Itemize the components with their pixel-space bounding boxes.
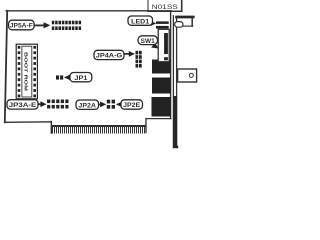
connector body 3 (black) <box>152 97 171 117</box>
bracket: screw slot <box>175 22 183 28</box>
jumper block JP2 (2x2 header) <box>107 100 115 109</box>
IC pins left column <box>18 46 21 97</box>
card outline: step down to edge connector <box>50 122 52 134</box>
label JP5A-F <box>9 20 51 30</box>
svg-text:JP4A-G: JP4A-G <box>96 54 123 60</box>
DB connector screw hole <box>189 73 193 77</box>
switch SW1 actuator bar <box>164 33 168 54</box>
label JP2A <box>76 100 106 109</box>
jumper block JP3A-E (5x2 header) <box>47 100 68 109</box>
edge connector gold fingers comb <box>52 125 145 134</box>
label LED1 <box>128 16 156 26</box>
label SW1 <box>138 36 159 49</box>
svg-text:SW1: SW1 <box>141 39 156 45</box>
switch SW1 lower mark <box>164 57 168 60</box>
DB connector through bracket <box>178 69 197 82</box>
switch SW1 body <box>158 29 169 61</box>
bracket: top tab <box>177 16 194 19</box>
card outline: left edge <box>5 11 7 123</box>
IC inner label area <box>22 46 32 97</box>
svg-text:JP2E: JP2E <box>123 103 140 109</box>
jumper block JP5A-F (9x2 header) <box>52 21 81 30</box>
part number box N01SS <box>147 0 149 11</box>
card outline: bottom-right edge <box>146 118 171 120</box>
IC U1 BOOT ROM: body <box>16 44 37 99</box>
label JP4A-G <box>94 50 135 59</box>
label JP2E <box>116 100 143 109</box>
connector body 2 (black) <box>152 78 171 94</box>
svg-text:N01SS: N01SS <box>152 4 179 11</box>
card outline: right edge <box>170 11 172 119</box>
svg-text:JP2A: JP2A <box>78 103 96 109</box>
edge connector top band <box>52 125 146 127</box>
connector body 1 (black) <box>152 60 171 74</box>
svg-text:JP5A-F: JP5A-F <box>10 24 33 30</box>
bracket: lower dark section <box>173 96 177 146</box>
jumper block JP4A-G (2x4 header) <box>136 51 142 68</box>
bracket: bottom foot <box>173 146 178 149</box>
bracket: right vertical line <box>176 17 178 148</box>
label JP3A-E <box>7 100 47 109</box>
bracket: left vertical line <box>172 16 174 148</box>
label JP1 <box>64 73 92 82</box>
svg-text:BOOT ROM: BOOT ROM <box>23 52 29 91</box>
svg-text:JP3A-E: JP3A-E <box>9 103 37 109</box>
card outline: top edge <box>6 10 171 12</box>
card outline: step up at comb right end <box>145 119 147 133</box>
IC pins right column <box>33 46 36 97</box>
jumper JP1 (2 pads) <box>56 75 59 79</box>
card outline: bottom-left edge <box>5 121 52 124</box>
svg-text:JP1: JP1 <box>74 76 88 82</box>
LED component at bracket <box>156 21 169 24</box>
svg-text:LED1: LED1 <box>131 19 150 25</box>
